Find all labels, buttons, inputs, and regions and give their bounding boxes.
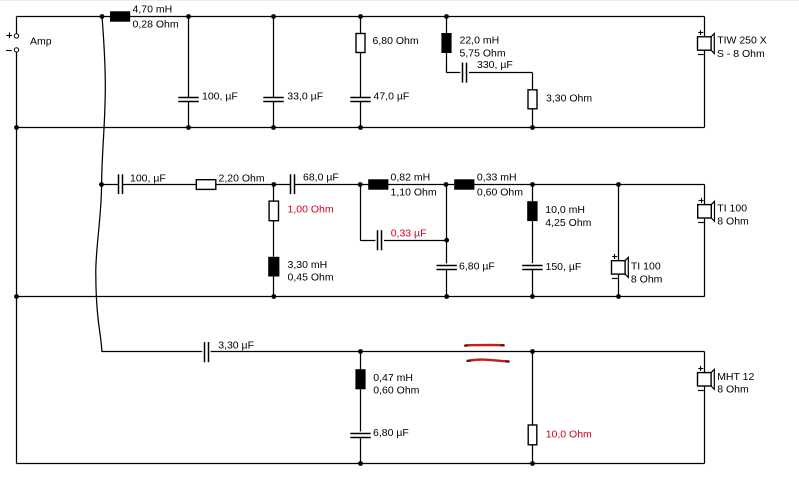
wire bypass to node	[384, 240, 447, 242]
wire mid rail seg2	[123, 184, 197, 186]
wire C8 to mid ground rail	[446, 270, 448, 297]
wire C1 branch lower	[188, 102, 190, 128]
svg-text:0,33 mH: 0,33 mH	[477, 172, 517, 184]
inductor L3 0,82 mH	[368, 179, 388, 189]
svg-text:2,20 Ohm: 2,20 Ohm	[219, 172, 265, 184]
node top rail / L2 branch	[444, 14, 449, 19]
wire R5 to bottom rail	[532, 445, 534, 464]
wire right TI100 drop	[704, 185, 706, 205]
wire C2 branch upper	[273, 17, 275, 98]
svg-text:6,80 Ohm: 6,80 Ohm	[373, 35, 419, 47]
red mark upper	[465, 344, 503, 347]
inductor L6 3,30 mH	[268, 257, 279, 277]
node mid rail / bypass right	[444, 182, 449, 187]
wire C11 to bottom rail	[360, 438, 362, 464]
wire woofer to ground rail	[704, 50, 706, 127]
node top rail / C2	[271, 14, 276, 19]
capacitor C2 33,0 uF	[263, 97, 283, 99]
node C2 to ground rail	[271, 125, 276, 130]
svg-text:100, µF: 100, µF	[202, 90, 238, 102]
node R2 to ground rail	[530, 125, 535, 130]
top section ground rail	[17, 127, 705, 129]
wire R5 branch upper	[532, 352, 534, 426]
Amp + terminal	[14, 34, 18, 38]
node mid rail feed	[99, 182, 104, 187]
wire C9 to mid ground rail	[532, 270, 534, 297]
svg-text:8 Ohm: 8 Ohm	[717, 384, 749, 396]
svg-text:3,30 µF: 3,30 µF	[218, 340, 254, 352]
svg-text:TI 100: TI 100	[717, 203, 747, 215]
wire R2 to ground rail	[532, 109, 534, 128]
node top rail / R1 branch	[358, 14, 363, 19]
svg-text:0,45 Ohm: 0,45 Ohm	[288, 272, 334, 284]
capacitor C7 0,33 uF (bypass)	[377, 230, 379, 250]
capacitor C9 150 uF	[522, 265, 542, 267]
svg-text:0,33 µF: 0,33 µF	[391, 228, 427, 240]
node mid rail / inner TI100 branch	[616, 182, 621, 187]
svg-text:Amp: Amp	[30, 36, 52, 48]
svg-text:100, µF: 100, µF	[130, 173, 166, 185]
speaker MHT 12 (tweeter)	[698, 373, 712, 386]
capacitor C11 6,80 uF (tweeter)	[350, 433, 370, 435]
node feed junction on top rail	[100, 14, 105, 19]
node mid ground rail left	[14, 294, 19, 299]
wire tweeter rail seg2	[211, 351, 705, 353]
capacitor C3 47,0 uF	[350, 97, 370, 99]
svg-text:MHT 12: MHT 12	[717, 371, 754, 383]
svg-text:22,0 mH: 22,0 mH	[460, 35, 500, 47]
svg-text:33,0 µF: 33,0 µF	[287, 90, 323, 102]
node C9 to mid ground rail	[530, 294, 535, 299]
svg-text:68,0 µF: 68,0 µF	[303, 172, 339, 184]
inductor L4 0,33 mH	[454, 179, 474, 189]
wire mid rail seg1	[102, 184, 119, 186]
capacitor C4 330 uF	[462, 63, 464, 83]
inductor L1 4,70 mH	[110, 11, 130, 21]
speaker TI 100 (inner mid)	[612, 261, 626, 274]
svg-text:0,82 mH: 0,82 mH	[391, 172, 431, 184]
resistor R5 10,0 Ohm	[528, 425, 537, 445]
node mid rail / bypass left	[358, 182, 363, 187]
svg-text:S - 8 Ohm: S - 8 Ohm	[717, 48, 765, 60]
svg-text:0,47 mH: 0,47 mH	[373, 372, 413, 384]
capacitor C1 100 uF	[178, 97, 198, 99]
window top edge highlight	[0, 0, 799, 1]
Amp - terminal	[14, 48, 18, 52]
svg-text:10,0 mH: 10,0 mH	[545, 204, 585, 216]
wire R4 branch upper	[273, 185, 275, 202]
wire right TI100 to mid ground rail	[704, 218, 706, 297]
wire C4 to R2	[469, 72, 533, 74]
wire L5 to C9	[532, 221, 534, 263]
wire top rail to L2	[446, 17, 448, 34]
mid section ground rail	[17, 296, 705, 298]
node tweeter rail / R5 branch	[530, 349, 535, 354]
svg-text:TI 100: TI 100	[631, 261, 661, 273]
inductor L7 0,47 mH	[355, 369, 365, 389]
svg-text:6,80 µF: 6,80 µF	[459, 261, 495, 273]
resistor R1 6,80 Ohm	[356, 34, 365, 53]
svg-text:6,80 µF: 6,80 µF	[373, 427, 409, 439]
svg-text:8 Ohm: 8 Ohm	[631, 273, 663, 285]
wire tweeter rail seg1	[102, 351, 203, 353]
wire L6 to mid ground rail	[273, 277, 275, 297]
node inner TI100 to mid ground rail	[616, 294, 621, 299]
wire C1 branch upper	[188, 17, 190, 98]
node R5 to bottom rail	[530, 461, 535, 466]
wire mid rail to C8	[446, 185, 448, 264]
wire mid rail seg3	[216, 184, 291, 186]
node C11 to bottom rail	[358, 461, 363, 466]
capacitor C8 6,80 uF	[437, 265, 457, 267]
svg-text:330, µF: 330, µF	[477, 59, 513, 71]
speaker TI 100 (right mid)	[698, 205, 712, 218]
capacitor C10 3,30 uF	[204, 342, 206, 362]
node top rail / C1	[186, 14, 191, 19]
wire mid rail to inner TI100	[618, 185, 620, 261]
svg-text:150, µF: 150, µF	[546, 261, 582, 273]
svg-text:3,30 mH: 3,30 mH	[288, 259, 328, 271]
svg-text:0,60 Ohm: 0,60 Ohm	[477, 187, 523, 199]
svg-text:1,00 Ohm: 1,00 Ohm	[288, 204, 334, 216]
wire R4 to L6	[273, 221, 275, 257]
svg-text:4,70 mH: 4,70 mH	[133, 3, 173, 15]
svg-text:1,10 Ohm: 1,10 Ohm	[391, 187, 437, 199]
node C1 to ground rail	[186, 125, 191, 130]
speaker TIW 250 X (woofer)	[698, 37, 712, 50]
wire left vertical (Amp - down to ground rails)	[16, 52, 18, 464]
wire C2 branch lower	[273, 102, 275, 128]
wire L7 branch upper	[360, 352, 362, 370]
wire top rail to R1	[360, 17, 362, 34]
wire mid rail seg6	[474, 184, 704, 186]
bottom ground rail	[17, 463, 705, 465]
node C3 to ground rail	[358, 125, 363, 130]
wire L7 to C11	[360, 389, 362, 431]
wire mid rail to L5	[532, 185, 534, 202]
top rail wire (Amp + to woofer)	[17, 16, 705, 18]
svg-text:4,25 Ohm: 4,25 Ohm	[545, 217, 591, 229]
node mid rail / R4 branch	[271, 182, 276, 187]
wire C3 branch lower	[360, 102, 362, 128]
wire mid rail seg4	[295, 184, 369, 186]
wire inner TI100 to mid ground rail	[618, 274, 620, 296]
wire feed to mid/tweeter sections (curved)	[96, 17, 106, 352]
svg-text:10,0 Ohm: 10,0 Ohm	[546, 429, 592, 441]
wire bypass drop left	[360, 185, 362, 241]
wire woofer drop	[704, 17, 706, 37]
wire mid rail seg5	[388, 184, 454, 186]
node ground rail left	[14, 125, 19, 130]
svg-text:47,0 µF: 47,0 µF	[374, 90, 410, 102]
svg-text:0,60 Ohm: 0,60 Ohm	[373, 385, 419, 397]
wire L2 to C4	[446, 53, 448, 73]
svg-text:3,30 Ohm: 3,30 Ohm	[546, 93, 592, 105]
resistor R4 1,00 Ohm	[269, 201, 278, 221]
node L6 to mid ground rail	[271, 294, 276, 299]
node C8 to mid ground rail	[444, 294, 449, 299]
capacitor C5 100 uF (mid)	[118, 174, 120, 194]
node tweeter rail / L7 branch	[358, 349, 363, 354]
wire tweeter drop	[704, 352, 706, 373]
inductor L2 22,0 mH	[441, 33, 451, 53]
inductor L5 10,0 mH	[527, 201, 537, 221]
resistor R3 2,20 Ohm	[196, 180, 216, 190]
svg-text:8 Ohm: 8 Ohm	[717, 215, 749, 227]
svg-text:TIW 250 X: TIW 250 X	[717, 35, 767, 47]
wire R1 to C3	[360, 53, 362, 98]
resistor R2 3,30 Ohm	[528, 90, 537, 109]
capacitor C6 68,0 uF	[290, 174, 292, 194]
wire tweeter to bottom rail	[704, 386, 706, 464]
red mark lower	[468, 360, 509, 362]
svg-text:0,28 Ohm: 0,28 Ohm	[133, 18, 179, 30]
wire left vertical from top rail to + terminal	[16, 17, 18, 34]
svg-text:5,75 Ohm: 5,75 Ohm	[460, 48, 506, 60]
node mid rail / L5 branch	[530, 182, 535, 187]
node bypass / C8 branch	[444, 238, 449, 243]
